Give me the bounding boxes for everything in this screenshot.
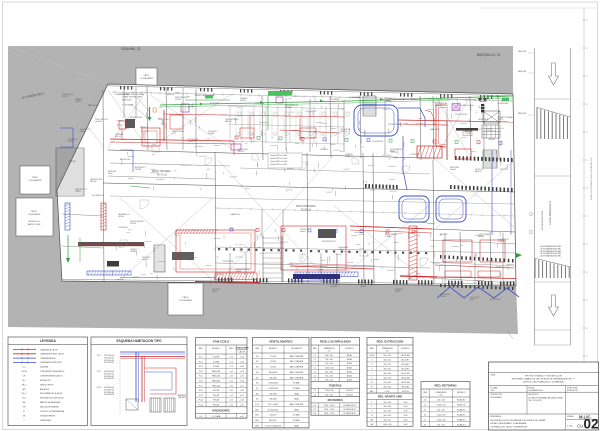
svg-text:FC-5: FC-5 xyxy=(199,376,203,378)
svg-text:T-1: T-1 xyxy=(314,390,316,392)
svg-text:TUBERIA RETORNO FRIO: TUBERIA RETORNO FRIO xyxy=(40,361,63,364)
svg-text:SOTANO: SOTANO xyxy=(293,382,301,385)
svg-text:FC-3: FC-3 xyxy=(97,387,101,389)
svg-text:65A58x: 65A58x xyxy=(68,140,74,143)
svg-text:U328C263UF: U328C263UF xyxy=(478,119,488,121)
svg-text:ACERA PAVIMENTADA: ACERA PAVIMENTADA xyxy=(541,210,544,230)
svg-text:BD-49-HO: BD-49-HO xyxy=(402,364,411,366)
svg-text:RA-1: RA-1 xyxy=(370,390,374,393)
street strip leader labels xyxy=(518,50,534,115)
svg-text:RED. EXTRACCION: RED. EXTRACCION xyxy=(377,340,404,344)
svg-text:FC-9: FC-9 xyxy=(199,395,203,397)
svg-text:EDIFICIO CALLE BARQUILLO, 21 (: EDIFICIO CALLE BARQUILLO, 21 (MADRID) xyxy=(523,380,564,383)
svg-text:BD-49-HO: BD-49-HO xyxy=(402,360,411,362)
svg-text:2: 2 xyxy=(371,406,372,408)
svg-text:700 x 100: 700 x 100 xyxy=(325,359,332,361)
svg-text:DIMENSION: DIMENSION xyxy=(324,348,335,350)
waffle grid unit xyxy=(482,125,500,138)
svg-text:4A2Om5: 4A2Om5 xyxy=(225,120,232,123)
svg-text:AT-AG: AT-AG xyxy=(347,358,353,361)
wall slat row mid-right A xyxy=(365,184,398,189)
svg-text:K6Ox2O: K6Ox2O xyxy=(238,151,245,153)
svg-text:973166: 973166 xyxy=(465,133,471,135)
svg-text:DM-10/M: DM-10/M xyxy=(270,399,278,401)
svg-text:ø 25: ø 25 xyxy=(230,395,233,397)
svg-text:AT-AG: AT-AG xyxy=(347,379,353,382)
svg-text:BD-BB-HO: BD-BB-HO xyxy=(457,414,466,416)
svg-text:mKx998: mKx998 xyxy=(142,259,148,261)
svg-text:1.200 x 200: 1.200 x 200 xyxy=(437,414,446,416)
svg-text:2OK818: 2OK818 xyxy=(498,241,504,243)
svg-text:8U512TL9: 8U512TL9 xyxy=(500,169,508,171)
svg-text:45.97 m2: 45.97 m2 xyxy=(301,209,312,212)
svg-text:xOBB0TxL: xOBB0TxL xyxy=(320,149,328,151)
svg-text:TUBERIA RETORNO CALOR: TUBERIA RETORNO CALOR xyxy=(40,353,65,356)
svg-text:IK-VE/DD RF-N: IK-VE/DD RF-N xyxy=(344,405,357,407)
svg-text:E-7: E-7 xyxy=(256,388,259,390)
svg-text:GR-( ): GR-( ) xyxy=(22,384,27,386)
svg-text:K272K1: K272K1 xyxy=(62,96,68,98)
svg-text:5: 5 xyxy=(371,373,372,375)
svg-text:3: 3 xyxy=(371,411,372,413)
svg-text:OK0A62: OK0A62 xyxy=(130,250,136,253)
svg-text:18: 18 xyxy=(586,244,588,246)
svg-text:MODIFICACION NO SUSTANCIAL DE: MODIFICACION NO SUSTANCIAL DE LICENCE DE… xyxy=(491,419,546,422)
svg-text:AP-1: AP-1 xyxy=(255,408,259,411)
patio trasera label xyxy=(152,170,171,177)
svg-text:A24L8 4C: A24L8 4C xyxy=(440,233,448,236)
svg-text:F16947TT: F16947TT xyxy=(140,127,148,129)
svg-text:COLINDANTE: COLINDANTE xyxy=(29,179,43,182)
svg-text:1451: 1451 xyxy=(491,390,495,392)
svg-text:D-3: D-3 xyxy=(313,413,316,415)
mid-left dark unit xyxy=(107,261,119,267)
svg-text:BOTTTT3F: BOTTTT3F xyxy=(210,103,219,105)
svg-text:300 x 100: 300 x 100 xyxy=(383,360,390,362)
street strip boundary lines xyxy=(535,48,571,345)
street area top band (gray) xyxy=(8,46,513,94)
svg-text:(C-): (C-) xyxy=(23,367,26,369)
svg-text:PATIO: PATIO xyxy=(183,296,189,299)
svg-text:6LF 008F86: 6LF 008F86 xyxy=(330,99,339,101)
svg-text:BAJO CUBIERTA: BAJO CUBIERTA xyxy=(290,360,304,363)
svg-text:ø 25: ø 25 xyxy=(230,400,233,402)
svg-text:FL75-160 ø35: FL75-160 ø35 xyxy=(104,362,114,364)
svg-text:FMN-1-AG: FMN-1-AG xyxy=(212,384,221,387)
svg-text:PATIO: PATIO xyxy=(32,176,38,179)
svg-text:COLINDANTE: COLINDANTE xyxy=(140,77,154,80)
patio colindante box left upper xyxy=(20,166,50,194)
svg-text:BARQUILLO, 21: BARQUILLO, 21 xyxy=(477,53,501,57)
svg-text:62: 62 xyxy=(424,414,426,416)
svg-text:13: 13 xyxy=(586,104,588,106)
magenta unit A xyxy=(181,104,189,112)
svg-text:Unidad VRV ext 1x40: Unidad VRV ext 1x40 xyxy=(270,157,287,160)
svg-text:10: 10 xyxy=(371,382,373,384)
svg-text:ø 75: ø 75 xyxy=(230,366,233,368)
svg-text:AT-AG: AT-AG xyxy=(347,362,353,365)
svg-text:BAJO CUBIERTA: BAJO CUBIERTA xyxy=(290,366,304,369)
svg-text:15A x3: 15A x3 xyxy=(212,290,217,293)
svg-text:PATIO: PATIO xyxy=(31,210,37,213)
svg-text:FL75-160 ø20: FL75-160 ø20 xyxy=(104,355,114,357)
svg-text:IK-VE/DD RF-N: IK-VE/DD RF-N xyxy=(344,413,357,415)
svg-text:OUxBAB 97572A9: OUxBAB 97572A9 xyxy=(115,93,129,96)
svg-text:BAJO CUBIERTA: BAJO CUBIERTA xyxy=(290,376,304,379)
svg-text:K287KO: K287KO xyxy=(440,296,447,298)
svg-text:BAJO CUBIERTA: BAJO CUBIERTA xyxy=(290,371,304,374)
svg-text:PROYECTO BASICO Y DE EJECUCION: PROYECTO BASICO Y DE EJECUCION xyxy=(525,374,562,377)
svg-text:1L73581569: 1L73581569 xyxy=(410,154,419,156)
svg-text:MODELO: MODELO xyxy=(269,348,278,350)
svg-text:2.200 + 1.500: 2.200 + 1.500 xyxy=(324,413,334,415)
svg-text:A4: A4 xyxy=(371,423,373,426)
svg-text:AO0 O5: AO0 O5 xyxy=(115,135,121,138)
svg-text:HOJA 1/3L/3S: HOJA 1/3L/3S xyxy=(567,389,579,392)
svg-text:5404AB4CCF: 5404AB4CCF xyxy=(410,98,420,101)
svg-text:CONTROL DE TEMPERATURA: CONTROL DE TEMPERATURA xyxy=(40,410,65,413)
svg-text:FC-7: FC-7 xyxy=(199,385,203,387)
svg-text:400 x 100: 400 x 100 xyxy=(383,386,390,388)
svg-text:BD-AG-HO: BD-AG-HO xyxy=(457,399,466,402)
svg-text:2m2m2: 2m2m2 xyxy=(300,231,306,233)
svg-text:DM-10/M: DM-10/M xyxy=(270,377,278,379)
wall slat row bottom-right E xyxy=(440,284,514,290)
table FAN-COILS xyxy=(196,338,250,419)
svg-text:0m928m: 0m928m xyxy=(285,107,292,109)
svg-text:61 x41681C60: 61 x41681C60 xyxy=(372,141,383,143)
svg-text:BD-49-UM: BD-49-UM xyxy=(402,378,411,380)
svg-text:I-7: I-7 xyxy=(314,380,316,382)
street strip note paragraph xyxy=(540,245,561,258)
svg-text:FCN-4N: FCN-4N xyxy=(213,400,220,402)
svg-text:1: 1 xyxy=(371,402,372,404)
svg-text:ø 25: ø 25 xyxy=(240,376,243,378)
svg-text:DF-49-N: DF-49-N xyxy=(346,394,353,396)
svg-text:MODELO: MODELO xyxy=(401,348,410,350)
svg-text:400 x 100: 400 x 100 xyxy=(383,373,390,375)
svg-text:12: 12 xyxy=(586,76,588,78)
svg-text:043O02: 043O02 xyxy=(240,100,246,102)
wall slat row right C xyxy=(450,185,513,192)
svg-text:61O1x3TCBO: 61O1x3TCBO xyxy=(158,119,169,121)
bathroom partition cluster xyxy=(228,106,349,144)
svg-text:ø 25: ø 25 xyxy=(240,395,243,397)
svg-text:4: 4 xyxy=(371,369,372,371)
plan annotation texts xyxy=(62,93,513,301)
svg-text:FC-3: FC-3 xyxy=(199,366,203,368)
svg-text:400 x 170: 400 x 170 xyxy=(437,424,444,426)
svg-text:AP-3: AP-3 xyxy=(255,419,259,422)
svg-text:I-5: I-5 xyxy=(314,371,316,373)
room cross diagonals xyxy=(60,88,515,284)
svg-text:4AO140: 4AO140 xyxy=(475,170,481,173)
svg-text:24: 24 xyxy=(424,400,426,402)
svg-text:AT-AG: AT-AG xyxy=(347,366,353,369)
svg-text:RED. APORTE AIRE: RED. APORTE AIRE xyxy=(378,395,403,399)
svg-text:PARQUIN: PARQUIN xyxy=(518,70,527,73)
extra structural detail xyxy=(62,87,516,285)
svg-text:E-5: E-5 xyxy=(256,377,259,379)
svg-text:TD-9000/500: TD-9000/500 xyxy=(268,383,278,385)
svg-text:ø 110: ø 110 xyxy=(240,366,244,368)
svg-text:E-8: E-8 xyxy=(256,393,259,395)
svg-text:2: 2 xyxy=(371,360,372,362)
svg-text:900 x 150: 900 x 150 xyxy=(325,394,332,396)
svg-text:16: 16 xyxy=(586,188,588,190)
svg-text:TEL. COLE. 3871: TEL. COLE. 3871 xyxy=(529,400,542,402)
svg-text:COLINDANTE: COLINDANTE xyxy=(28,213,42,216)
red heating pipe network xyxy=(101,110,516,283)
svg-text:TD-9000/500: TD-9000/500 xyxy=(268,388,278,390)
svg-text:1.400 x 100: 1.400 x 100 xyxy=(383,424,392,426)
svg-text:ø 25: ø 25 xyxy=(230,381,233,383)
wall slat row bottom-right D xyxy=(440,255,514,263)
svg-text:BH-49-OD: BH-49-OD xyxy=(457,405,466,407)
kitchen extraction text cluster xyxy=(122,93,150,118)
svg-text:MODELO: MODELO xyxy=(345,348,354,350)
svg-text:SONDA EXTERIOR: SONDA EXTERIOR xyxy=(40,414,56,417)
svg-text:FC-1: FC-1 xyxy=(97,355,101,357)
svg-text:C2L6T57U21FO: C2L6T57U21FO xyxy=(455,114,468,116)
dark lintel bar xyxy=(456,128,478,136)
patio colindante box top xyxy=(136,68,157,90)
svg-text:CV-160: CV-160 xyxy=(270,356,276,358)
svg-text:Unidad VRV ext 3x40: Unidad VRV ext 3x40 xyxy=(270,163,287,166)
svg-text:FC-8: FC-8 xyxy=(199,390,203,392)
svg-text:VENTILADOR DE IMPULSION: VENTILADOR DE IMPULSION xyxy=(40,397,64,400)
patio principal label xyxy=(296,205,317,212)
svg-text:FCN-3N: FCN-3N xyxy=(213,395,220,397)
svg-text:O85x8: O85x8 xyxy=(80,131,85,133)
svg-text:ø 20: ø 20 xyxy=(240,416,243,418)
svg-text:1.000 x 100: 1.000 x 100 xyxy=(325,367,334,369)
svg-text:ø 25: ø 25 xyxy=(230,385,233,387)
svg-text:MH-100/7: MH-100/7 xyxy=(269,420,276,422)
table LEYENDA xyxy=(8,337,88,426)
green riser arrow xyxy=(148,107,157,121)
svg-text:E-4: E-4 xyxy=(256,372,259,374)
svg-text:GRUPO DE FRIO: GRUPO DE FRIO xyxy=(40,384,54,386)
svg-text:ø 25: ø 25 xyxy=(230,405,233,407)
svg-text:MODELO: MODELO xyxy=(212,348,221,350)
svg-text:GRC-125: GRC-125 xyxy=(402,391,409,393)
svg-text:600 x 100: 600 x 100 xyxy=(383,355,390,357)
svg-text:400 x 100: 400 x 100 xyxy=(383,411,390,413)
svg-text:CT: CT xyxy=(23,411,25,413)
right margin ruler xyxy=(480,8,598,362)
traffic arrow bottom xyxy=(549,295,559,316)
svg-text:5C9261FOF2U3T: 5C9261FOF2U3T xyxy=(388,124,401,126)
svg-text:A. CARLOS VERGARA-CAILLEAUX GO: A. CARLOS VERGARA-CAILLEAUX GONZA xyxy=(529,396,564,399)
svg-text:69m7x8: 69m7x8 xyxy=(435,105,441,107)
svg-text:AT-AG: AT-AG xyxy=(347,370,353,373)
svg-text:300 x 100: 300 x 100 xyxy=(383,406,390,408)
svg-text:EXTRACTOR: EXTRACTOR xyxy=(40,379,51,382)
traffic arrow top xyxy=(549,63,559,85)
svg-text:RADIADORES: RADIADORES xyxy=(212,408,230,412)
svg-text:ø 110: ø 110 xyxy=(240,381,244,383)
svg-text:SOTANO: SOTANO xyxy=(293,387,301,390)
svg-text:L5BC803: L5BC803 xyxy=(488,139,495,141)
svg-text:8BLOFL7L8O: 8BLOFL7L8O xyxy=(120,159,131,161)
svg-text:FRIO: FRIO xyxy=(229,348,234,350)
svg-text:I-6: I-6 xyxy=(314,376,316,378)
svg-text:CALDERA: CALDERA xyxy=(40,366,49,369)
svg-text:CALLE BARQUILLO: CALLE BARQUILLO xyxy=(548,201,552,225)
svg-text:COND. 2TB 900 CFM: COND. 2TB 900 CFM xyxy=(122,97,142,99)
dark unit mid xyxy=(318,229,336,238)
svg-text:3: 3 xyxy=(371,364,372,366)
svg-text:VALVULA DE RESERVA: VALVULA DE RESERVA xyxy=(40,406,59,409)
staircase lower-left xyxy=(154,245,165,272)
svg-text:COMPUERTA CORTA FUEGOS: COMPUERTA CORTA FUEGOS xyxy=(40,370,65,373)
svg-text:T79FOT35526L: T79FOT35526L xyxy=(222,261,234,263)
svg-text:SOTANO: SOTANO xyxy=(293,414,301,417)
svg-text:21: 21 xyxy=(586,328,588,330)
svg-text:E-2: E-2 xyxy=(256,361,259,363)
svg-text:m 7 5: m 7 5 xyxy=(172,133,176,135)
svg-text:COLINDANTE: COLINDANTE xyxy=(179,299,193,302)
svg-text:934O48: 934O48 xyxy=(135,169,141,171)
svg-text:FC-4: FC-4 xyxy=(199,371,203,373)
svg-text:BD-49-UM: BD-49-UM xyxy=(402,355,411,357)
svg-text:RED. RETORNO: RED. RETORNO xyxy=(434,384,457,388)
svg-text:FC-10: FC-10 xyxy=(198,400,203,402)
svg-text:CV-160: CV-160 xyxy=(270,361,276,363)
svg-text:828767BFT2F91C: 828767BFT2F91C xyxy=(322,241,337,243)
svg-text:400 x 150: 400 x 150 xyxy=(437,400,444,402)
svg-text:DIFUSORES: DIFUSORES xyxy=(328,398,343,402)
svg-text:009 8x: 009 8x xyxy=(395,291,400,293)
svg-text:Unidad VRV ext 2x40: Unidad VRV ext 2x40 xyxy=(270,160,287,163)
svg-text:xm21mA: xm21mA xyxy=(95,120,103,123)
internal walls xyxy=(62,86,516,285)
svg-text:FL75-400 ø35: FL75-400 ø35 xyxy=(104,378,114,380)
table RED. EXTRACCION xyxy=(367,338,413,427)
svg-text:947xx: 947xx xyxy=(108,173,113,175)
svg-text:ø 25: ø 25 xyxy=(240,405,243,407)
red riser loop top-right xyxy=(425,105,446,147)
svg-text:300 x 100: 300 x 100 xyxy=(383,369,390,371)
svg-text:LLA0A72014: LLA0A72014 xyxy=(230,213,240,216)
purple unit top-right xyxy=(452,104,460,111)
svg-text:1.000 x 200: 1.000 x 200 xyxy=(437,405,446,407)
svg-text:10: 10 xyxy=(586,20,588,22)
micro structure marks xyxy=(113,93,515,286)
svg-text:FMN-2-AG: FMN-2-AG xyxy=(212,380,221,383)
svg-text:CL. PLANA: CL. PLANA xyxy=(212,415,222,418)
svg-text:mmm317: mmm317 xyxy=(480,101,487,103)
svg-text:VENTILADORES: VENTILADORES xyxy=(269,340,293,344)
svg-text:VI-( ): VI-( ) xyxy=(22,398,26,400)
svg-text:TERMOSTATO: TERMOSTATO xyxy=(40,419,52,422)
svg-text:BD-49-HO: BD-49-HO xyxy=(402,369,411,371)
svg-text:ø 50: ø 50 xyxy=(230,371,233,373)
svg-text:ø 25: ø 25 xyxy=(230,390,233,392)
svg-text:ø 75: ø 75 xyxy=(230,361,233,363)
svg-text:CT48 C F33: CT48 C F33 xyxy=(255,103,264,105)
svg-text:PARQUIN: PARQUIN xyxy=(518,112,527,115)
svg-text:I-2: I-2 xyxy=(314,359,316,361)
svg-text:BD-AB-HO: BD-AB-HO xyxy=(457,409,466,412)
svg-text:CSV - 16/700: CSV - 16/700 xyxy=(268,404,278,406)
svg-text:FL75-160 ø30: FL75-160 ø30 xyxy=(104,360,114,362)
svg-text:2.200 + 1.500: 2.200 + 1.500 xyxy=(324,409,334,411)
parking comb top xyxy=(536,107,570,139)
svg-text:40.71 m2: 40.71 m2 xyxy=(157,174,168,177)
staircase top-middle xyxy=(363,96,376,116)
svg-text:5x65LB19: 5x65LB19 xyxy=(68,161,76,163)
svg-text:54770m: 54770m xyxy=(175,99,182,101)
svg-text:FL75-660 ø30: FL75-660 ø30 xyxy=(104,392,114,394)
table RED. RETORNO xyxy=(421,382,470,427)
courtyard area bottom band (gray) xyxy=(8,281,518,334)
svg-text:FC-1: FC-1 xyxy=(199,357,203,359)
svg-text:CTxF49C41L: CTxF49C41L xyxy=(118,227,128,229)
svg-text:CSV-16/7: CSV-16/7 xyxy=(269,415,276,417)
crossed shaft box top-right xyxy=(483,111,500,123)
svg-text:41 BALUL4O4LL0: 41 BALUL4O4LL0 xyxy=(460,104,474,107)
street area left column (gray) xyxy=(8,46,108,281)
svg-text:1.000 x 150: 1.000 x 150 xyxy=(437,419,446,421)
svg-text:x2A A2: x2A A2 xyxy=(385,99,390,102)
svg-text:AT-AG: AT-AG xyxy=(347,375,353,378)
building outline xyxy=(57,84,516,286)
svg-text:2xxOm: 2xxOm xyxy=(130,119,136,121)
svg-text:I-4: I-4 xyxy=(314,367,316,369)
svg-text:REJILLAS IMPULSION: REJILLAS IMPULSION xyxy=(320,340,351,344)
svg-text:893CFC57FU: 893CFC57FU xyxy=(490,299,501,301)
svg-text:C.G.R. TD-9000/L700: C.G.R. TD-9000/L700 xyxy=(265,425,281,427)
svg-text:19: 19 xyxy=(586,272,588,274)
svg-text:10: 10 xyxy=(371,415,373,417)
svg-text:1mx1A2: 1mx1A2 xyxy=(208,132,214,135)
svg-text:TD-9000/700L: TD-9000/700L xyxy=(268,409,279,411)
svg-text:MANDOS DE MANIOBRA: MANDOS DE MANIOBRA xyxy=(40,401,61,404)
svg-text:ESTADO REFORMADO. PLANTA BAJA: ESTADO REFORMADO. PLANTA BAJA xyxy=(491,422,527,425)
svg-text:SOTANO: SOTANO xyxy=(293,419,301,422)
svg-text:15: 15 xyxy=(586,160,588,162)
svg-text:REFORMA Y CAMBIO DE USO DE EDI: REFORMA Y CAMBIO DE USO DE EDIF. DE VIVI… xyxy=(512,377,576,380)
svg-text:MAXIM. 1.80 HR: MAXIM. 1.80 HR xyxy=(28,223,41,226)
svg-text:SITUACION: SITUACION xyxy=(291,347,302,350)
svg-text:BAJO CUBIERTA: BAJO CUBIERTA xyxy=(290,355,304,358)
svg-text:FL75-400 ø30: FL75-400 ø30 xyxy=(104,376,114,378)
magenta unit C xyxy=(276,97,283,103)
svg-text:FL75-660 ø25: FL75-660 ø25 xyxy=(104,389,114,391)
svg-text:I-3: I-3 xyxy=(314,363,316,365)
svg-text:700 x 100: 700 x 100 xyxy=(325,376,332,378)
svg-text:800 x 100: 800 x 100 xyxy=(325,371,332,373)
svg-text:AP-4: AP-4 xyxy=(255,424,259,427)
svg-text:CST-A: CST-A xyxy=(22,370,28,373)
svg-text:RC-( ): RC-( ) xyxy=(22,393,27,395)
svg-text:UL6T8x1F8A 4LL: UL6T8x1F8A 4LL xyxy=(310,278,323,281)
svg-text:DIMENSION: DIMENSION xyxy=(436,392,447,394)
svg-text:300 x 100: 300 x 100 xyxy=(383,420,390,422)
svg-text:ø 125: ø 125 xyxy=(385,391,389,393)
svg-text:COMPUERTA REGULACION: COMPUERTA REGULACION xyxy=(40,374,63,377)
svg-text:7O860K: 7O860K xyxy=(235,271,242,273)
svg-text:600 x 100: 600 x 100 xyxy=(325,355,332,357)
svg-text:86 757: 86 757 xyxy=(498,119,503,121)
svg-text:11: 11 xyxy=(586,48,588,50)
svg-text:14: 14 xyxy=(586,132,588,134)
svg-text:T-2: T-2 xyxy=(314,394,316,396)
svg-text:DISTRIBUCION, USOS Y SUPERFICI: DISTRIBUCION, USOS Y SUPERFICIES xyxy=(491,427,528,429)
svg-text:BD-49-HO: BD-49-HO xyxy=(402,386,411,388)
